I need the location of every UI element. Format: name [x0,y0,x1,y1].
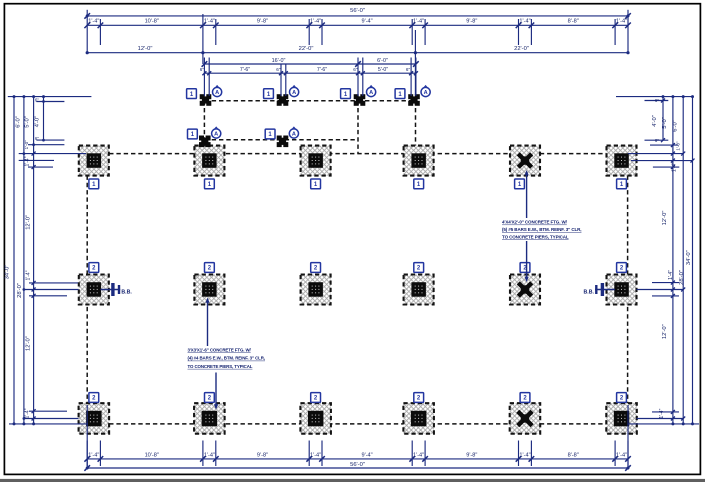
svg-text:12'-0": 12'-0" [662,211,668,226]
svg-text:16'-0": 16'-0" [272,58,286,64]
svg-text:9'-8": 9'-8" [466,19,477,25]
svg-text:1'-0": 1'-0" [24,140,29,150]
svg-text:1'-4": 1'-4" [88,19,99,25]
svg-text:A: A [369,90,373,96]
svg-text:9'-8": 9'-8" [257,19,268,25]
svg-text:6": 6" [35,97,39,102]
svg-text:6": 6" [276,67,281,72]
svg-text:22'-0": 22'-0" [514,46,529,52]
svg-text:6": 6" [200,67,205,72]
svg-text:6'-0": 6'-0" [672,120,678,132]
svg-text:(4) #4 BARS E.W., BTM. REINF.: (4) #4 BARS E.W., BTM. REINF. 3" CLR, [188,356,265,361]
svg-text:A: A [424,90,428,96]
svg-text:(5) #5 BARS E.W., BTM. REINF.: (5) #5 BARS E.W., BTM. REINF. 3" CLR, [502,227,581,232]
svg-text:12'-0": 12'-0" [25,215,31,230]
svg-text:B.B.: B.B. [584,290,595,296]
svg-text:3'X3'X1'-6" CONCRETE FTG. W/: 3'X3'X1'-6" CONCRETE FTG. W/ [188,348,252,353]
svg-text:1'-4": 1'-4" [668,270,674,280]
svg-text:10'-8": 10'-8" [145,19,159,25]
svg-text:4'X4'X2'-0" CONCRETE FTG. W/: 4'X4'X2'-0" CONCRETE FTG. W/ [502,220,568,225]
svg-text:A: A [292,132,296,138]
svg-text:1'-4": 1'-4" [671,162,677,172]
svg-text:1'-4": 1'-4" [659,408,665,418]
svg-text:1'-4": 1'-4" [310,19,321,25]
svg-text:28'-0": 28'-0" [679,270,685,285]
svg-text:6": 6" [655,138,660,143]
svg-text:12'-0": 12'-0" [662,324,668,339]
svg-text:A: A [215,90,219,96]
svg-text:4'-0": 4'-0" [652,115,658,127]
svg-text:1'-0": 1'-0" [675,141,680,151]
svg-text:1'-4": 1'-4" [204,452,215,458]
svg-text:56'-0": 56'-0" [350,462,365,468]
svg-text:10'-8": 10'-8" [145,452,159,458]
svg-text:TO CONCRETE PIERS, TYPICAL: TO CONCRETE PIERS, TYPICAL [188,364,253,369]
svg-text:34'-0": 34'-0" [686,250,692,265]
svg-text:1'-4": 1'-4" [519,19,530,25]
svg-text:6'-0": 6'-0" [377,58,388,64]
svg-text:9'-8": 9'-8" [466,452,477,458]
svg-text:9'-4": 9'-4" [362,19,373,25]
svg-text:B.B.: B.B. [121,290,132,296]
svg-text:A: A [214,132,218,138]
svg-text:4'-0": 4'-0" [34,116,40,128]
svg-text:TO CONCRETE PIERS, TYPICAL: TO CONCRETE PIERS, TYPICAL [502,235,569,240]
svg-text:9'-8": 9'-8" [257,452,268,458]
svg-text:6": 6" [406,67,411,72]
svg-text:A: A [292,90,296,96]
svg-text:1'-4": 1'-4" [25,270,31,280]
svg-text:1'-4": 1'-4" [310,452,321,458]
svg-text:1'-4": 1'-4" [88,452,99,458]
svg-text:1'-4": 1'-4" [413,19,424,25]
svg-text:6": 6" [35,136,39,141]
svg-text:8'-8": 8'-8" [568,452,579,458]
svg-text:1'-4": 1'-4" [413,452,424,458]
svg-text:5'-0": 5'-0" [378,67,388,73]
svg-text:1'-4": 1'-4" [24,408,30,418]
svg-text:5'-0": 5'-0" [25,116,31,128]
svg-text:34'-0": 34'-0" [5,265,11,280]
svg-text:1'-4": 1'-4" [616,452,627,458]
svg-text:7'-6": 7'-6" [240,67,250,73]
svg-text:1'-4": 1'-4" [616,19,627,25]
svg-text:28'-0": 28'-0" [17,283,23,298]
svg-text:6'-0": 6'-0" [16,116,22,128]
svg-text:6": 6" [353,67,358,72]
svg-text:1'-4": 1'-4" [519,452,530,458]
svg-text:6": 6" [655,98,660,103]
svg-text:5'-0": 5'-0" [662,117,668,129]
svg-text:1'-4": 1'-4" [204,19,215,25]
svg-text:12'-0": 12'-0" [138,46,153,52]
svg-text:1'-4": 1'-4" [24,156,30,166]
svg-text:9'-4": 9'-4" [362,452,373,458]
svg-text:8'-8": 8'-8" [568,19,579,25]
svg-text:12'-0": 12'-0" [25,336,31,351]
svg-text:22'-0": 22'-0" [299,46,314,52]
svg-text:7'-6": 7'-6" [317,67,327,73]
svg-text:56'-0": 56'-0" [350,8,365,14]
